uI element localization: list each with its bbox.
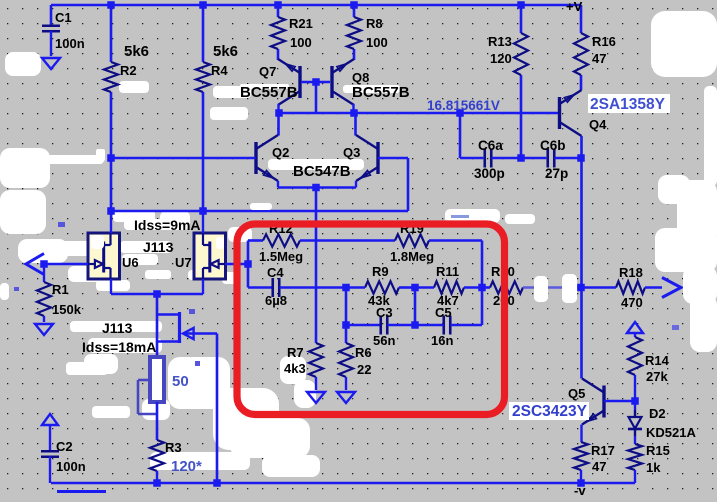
- svg-text:5k6: 5k6: [124, 43, 149, 60]
- node Q4 collector: [577, 154, 585, 162]
- svg-text:C4: C4: [267, 265, 284, 280]
- label C4: [265, 265, 287, 308]
- svg-text:16n: 16n: [431, 333, 453, 348]
- svg-text:R13: R13: [488, 34, 512, 49]
- label R9: [368, 264, 390, 308]
- wire -V rail: [51, 482, 635, 485]
- wire R8 lead: [353, 5, 356, 60]
- label C3: [373, 305, 395, 348]
- resistor R10: [490, 281, 523, 293]
- node base link: [312, 78, 320, 86]
- svg-text:U6: U6: [122, 255, 139, 270]
- label U7: [175, 255, 192, 270]
- svg-text:R7: R7: [287, 345, 304, 360]
- resistor R13: [514, 33, 528, 75]
- svg-text:C5: C5: [435, 305, 452, 320]
- stray dot 3: [195, 361, 200, 366]
- jfet U7: [194, 211, 226, 294]
- svg-text:R11: R11: [436, 264, 459, 279]
- wire Q3 collector drop: [354, 113, 357, 136]
- ground R7: [307, 392, 325, 403]
- node input: [40, 260, 48, 268]
- wire row B-C drop 1: [345, 288, 348, 344]
- resistor R6: [339, 343, 353, 390]
- svg-text:C6b: C6b: [540, 138, 566, 153]
- wire R18 leads: [581, 286, 662, 289]
- label R15: [646, 443, 670, 475]
- capacitor C1: [42, 26, 60, 56]
- svg-text:2SC3423Y: 2SC3423Y: [512, 403, 588, 420]
- label R2: [120, 43, 149, 78]
- node row B 1: [342, 284, 350, 292]
- label 50: [172, 373, 189, 390]
- svg-text:120: 120: [490, 51, 512, 66]
- label Q8: [352, 70, 410, 101]
- svg-text:100n: 100n: [56, 459, 86, 474]
- node 16.8V tap: [456, 109, 464, 117]
- label R10: [491, 264, 515, 308]
- svg-text:Idss=9mA: Idss=9mA: [134, 217, 201, 233]
- label Q7: [240, 64, 298, 101]
- wire U6 drain row: [111, 210, 203, 213]
- label R7: [284, 345, 306, 376]
- capacitor C6b: [548, 149, 581, 168]
- label R4: [211, 43, 238, 78]
- capacitor C6a: [485, 149, 547, 168]
- label U6: [122, 255, 139, 270]
- label KD521A: [646, 425, 696, 440]
- resistor R7: [309, 343, 323, 390]
- wire R16 lead: [580, 5, 583, 90]
- label 2SC3423Y: [509, 402, 589, 420]
- node Q5 base: [631, 397, 639, 405]
- node emitter join: [312, 184, 320, 192]
- node C6 mid: [517, 154, 525, 162]
- wire row A right: [429, 241, 482, 326]
- label R18: [619, 265, 643, 310]
- svg-text:BC557B: BC557B: [240, 84, 298, 101]
- transistor Q4: [560, 90, 582, 136]
- wire Q4 collector col: [580, 136, 583, 288]
- resistor R4: [196, 62, 210, 92]
- svg-text:100: 100: [290, 35, 312, 50]
- label Q4: [589, 117, 607, 132]
- node row C 1: [342, 321, 350, 329]
- ground R6: [337, 392, 355, 403]
- label C6b: [540, 138, 568, 181]
- jfet J113 current source: [157, 312, 217, 343]
- wire pot to R3: [156, 402, 159, 440]
- svg-text:R9: R9: [372, 264, 389, 279]
- resistor R14: [628, 333, 642, 401]
- ground C1: [42, 58, 60, 69]
- svg-text:Q4: Q4: [589, 117, 607, 132]
- wire Q5 base: [604, 400, 635, 403]
- transistor Q5: [582, 379, 604, 425]
- label C5: [431, 305, 453, 348]
- node right 211: [199, 207, 207, 215]
- svg-text:22: 22: [357, 362, 371, 377]
- resistor R3: [150, 440, 164, 483]
- node U7 gate: [244, 260, 252, 268]
- node gate bottom: [213, 479, 221, 487]
- wire C6 row: [460, 113, 483, 158]
- svg-text:R1: R1: [52, 282, 69, 297]
- svg-text:150k: 150k: [52, 302, 82, 317]
- blob in U7 box: [216, 237, 224, 249]
- svg-text:4k3: 4k3: [284, 361, 306, 376]
- label R14: [645, 353, 670, 384]
- label R1: [52, 282, 82, 317]
- label D2: [649, 406, 666, 421]
- svg-text:R4: R4: [211, 63, 228, 78]
- svg-text:U7: U7: [175, 255, 192, 270]
- node R4 top: [199, 1, 207, 9]
- svg-text:1.8Meg: 1.8Meg: [390, 249, 434, 264]
- stray dot 1: [451, 215, 679, 330]
- wire emitter join: [278, 188, 356, 344]
- node R2 top: [107, 1, 115, 9]
- label -V: [574, 483, 586, 498]
- wire R21 lead: [277, 5, 280, 60]
- node R13 top: [517, 1, 525, 9]
- svg-text:56n: 56n: [373, 333, 395, 348]
- wire collector row: [279, 112, 559, 115]
- transistor Q2: [256, 135, 278, 188]
- label 16.815661V: [427, 98, 500, 113]
- svg-text:5k6: 5k6: [213, 43, 238, 60]
- label J113 upper: [143, 239, 174, 255]
- port arrow C2: [42, 414, 58, 425]
- resistor R15: [628, 444, 642, 483]
- wire +V rail: [51, 4, 581, 7]
- blob over output: [683, 266, 717, 304]
- svg-text:J113: J113: [143, 239, 174, 255]
- label R6: [355, 345, 372, 377]
- wire Q5 collector col: [580, 288, 583, 379]
- label R3: [165, 440, 202, 475]
- svg-text:Q2: Q2: [272, 145, 289, 160]
- node row B 3: [478, 284, 486, 292]
- stray dot 2: [189, 309, 195, 314]
- capacitor C5: [415, 316, 482, 335]
- wire row A left: [248, 241, 263, 288]
- port output arrow: [662, 278, 681, 298]
- wire Q2 collector drop: [277, 113, 280, 136]
- svg-text:300p: 300p: [474, 166, 505, 181]
- svg-text:R21: R21: [289, 16, 313, 31]
- svg-text:47: 47: [592, 459, 606, 474]
- svg-text:Q7: Q7: [259, 64, 276, 79]
- svg-text:470: 470: [621, 295, 643, 310]
- svg-text:47: 47: [592, 51, 606, 66]
- wire C1 drop: [50, 5, 53, 26]
- resistor R8: [347, 17, 361, 49]
- svg-text:1.5Meg: 1.5Meg: [259, 249, 303, 264]
- resistor R18: [616, 281, 645, 293]
- svg-text:16.815661V: 16.815661V: [427, 98, 500, 113]
- wire Q7-Q8 base link: [301, 82, 330, 113]
- wire Q3 base loop: [203, 158, 408, 211]
- potentiometer 50: [138, 357, 164, 414]
- resistor R9: [365, 281, 399, 293]
- wire R2 column: [110, 5, 113, 211]
- label Idss=9mA: [134, 217, 201, 233]
- label C1: [55, 10, 85, 51]
- node R21 top: [274, 1, 282, 9]
- label Q3: [343, 145, 360, 160]
- svg-text:27k: 27k: [646, 369, 668, 384]
- blob over R10 wire: [534, 274, 577, 303]
- wire U7 gate: [226, 263, 249, 266]
- node source join: [153, 290, 161, 298]
- label R12: [259, 221, 303, 264]
- transistor Q3: [356, 135, 378, 188]
- svg-text:Q3: Q3: [343, 145, 360, 160]
- wire Q2 base: [111, 157, 256, 160]
- resistor R12: [263, 234, 300, 246]
- label 2SA1358Y: [588, 94, 670, 113]
- resistor R17: [574, 425, 588, 484]
- svg-text:6µ8: 6µ8: [265, 293, 287, 308]
- svg-text:C1: C1: [55, 10, 72, 25]
- transistor Q7: [278, 59, 300, 114]
- wire B-C drop 2: [414, 288, 417, 326]
- svg-text:R18: R18: [619, 265, 643, 280]
- resistor R1: [37, 264, 51, 322]
- svg-text:C3: C3: [376, 305, 393, 320]
- stray blue mark: [57, 490, 106, 493]
- wire U6 gate: [44, 263, 88, 266]
- svg-text:1k: 1k: [646, 460, 661, 475]
- node Q8 collector: [350, 109, 358, 117]
- label C6a: [474, 138, 505, 181]
- node R8 top: [350, 1, 358, 9]
- label BC547B: [293, 163, 351, 180]
- label R19: [390, 221, 434, 264]
- label C2: [56, 439, 86, 474]
- node row B 2: [411, 284, 419, 292]
- label Q5: [568, 386, 585, 401]
- svg-text:KD521A: KD521A: [646, 425, 696, 440]
- svg-text:R2: R2: [120, 63, 137, 78]
- wire R9 leads: [346, 286, 415, 289]
- svg-text:+V: +V: [566, 0, 583, 14]
- svg-text:120*: 120*: [171, 458, 202, 475]
- blob over wire 211: [250, 203, 272, 210]
- stray dot 4: [14, 222, 65, 291]
- resistor R16: [574, 33, 588, 75]
- transistor Q8: [332, 59, 354, 114]
- jfet U6: [88, 211, 120, 294]
- svg-text:R3: R3: [165, 440, 182, 455]
- label +V: [566, 0, 583, 14]
- svg-text:R6: R6: [355, 345, 372, 360]
- label Q2: [272, 145, 289, 160]
- node Q7 collector: [275, 109, 283, 117]
- label R13: [488, 34, 512, 66]
- svg-text:BC547B: BC547B: [293, 163, 351, 180]
- wire R10 to R18: [523, 286, 581, 288]
- wire row A mid: [300, 239, 395, 242]
- svg-text:C2: C2: [56, 439, 73, 454]
- svg-text:R8: R8: [366, 16, 383, 31]
- resistor R11: [434, 281, 464, 293]
- resistor R2: [104, 62, 118, 92]
- svg-text:R15: R15: [646, 443, 670, 458]
- label R17: [591, 443, 615, 474]
- svg-text:R17: R17: [591, 443, 615, 458]
- node R3 bottom: [153, 479, 161, 487]
- svg-text:D2: D2: [649, 406, 666, 421]
- svg-text:27p: 27p: [545, 166, 568, 181]
- wire R11 leads: [415, 286, 482, 289]
- capacitor C2: [41, 425, 59, 483]
- svg-text:BC557B: BC557B: [352, 84, 410, 101]
- ground R1: [35, 324, 53, 335]
- label R16: [592, 34, 616, 66]
- node Q2 base row: [107, 154, 115, 162]
- wire source join: [111, 294, 203, 357]
- svg-text:C6a: C6a: [478, 138, 503, 153]
- svg-text:Idss=18mA: Idss=18mA: [82, 339, 156, 355]
- svg-text:J113: J113: [102, 320, 133, 336]
- wire gate to -V: [216, 334, 219, 484]
- svg-text:100n: 100n: [55, 36, 85, 51]
- resistor R19: [395, 234, 429, 246]
- port input arrow: [26, 254, 44, 275]
- wire R4 column: [202, 5, 205, 211]
- label J113 lower: [102, 320, 133, 336]
- blob in U6 box: [91, 235, 104, 249]
- wire row C left: [346, 324, 380, 327]
- capacitor C4: [273, 278, 346, 297]
- svg-text:2SA1358Y: 2SA1358Y: [590, 96, 666, 113]
- svg-text:50: 50: [172, 373, 189, 390]
- svg-text:100: 100: [366, 35, 388, 50]
- svg-text:R16: R16: [592, 34, 616, 49]
- wire R13 column: [520, 5, 523, 158]
- node left 211: [107, 207, 115, 215]
- diode D2: [628, 401, 642, 444]
- wire R10 lead: [482, 286, 490, 289]
- node row C mid: [411, 321, 419, 329]
- label R8: [366, 16, 388, 50]
- svg-text:Q8: Q8: [352, 70, 369, 85]
- red highlight box: [237, 224, 505, 415]
- port arrow R14: [627, 322, 643, 333]
- label Idss=18mA: [82, 339, 156, 355]
- resistor R21: [271, 17, 285, 49]
- node R17 bottom: [577, 479, 585, 487]
- svg-text:R14: R14: [645, 353, 670, 368]
- label R21: [289, 16, 313, 50]
- label R11: [436, 264, 459, 308]
- wire row B left: [248, 286, 272, 289]
- capacitor C3: [381, 316, 415, 335]
- svg-text:Q5: Q5: [568, 386, 585, 401]
- node output tee: [577, 284, 585, 292]
